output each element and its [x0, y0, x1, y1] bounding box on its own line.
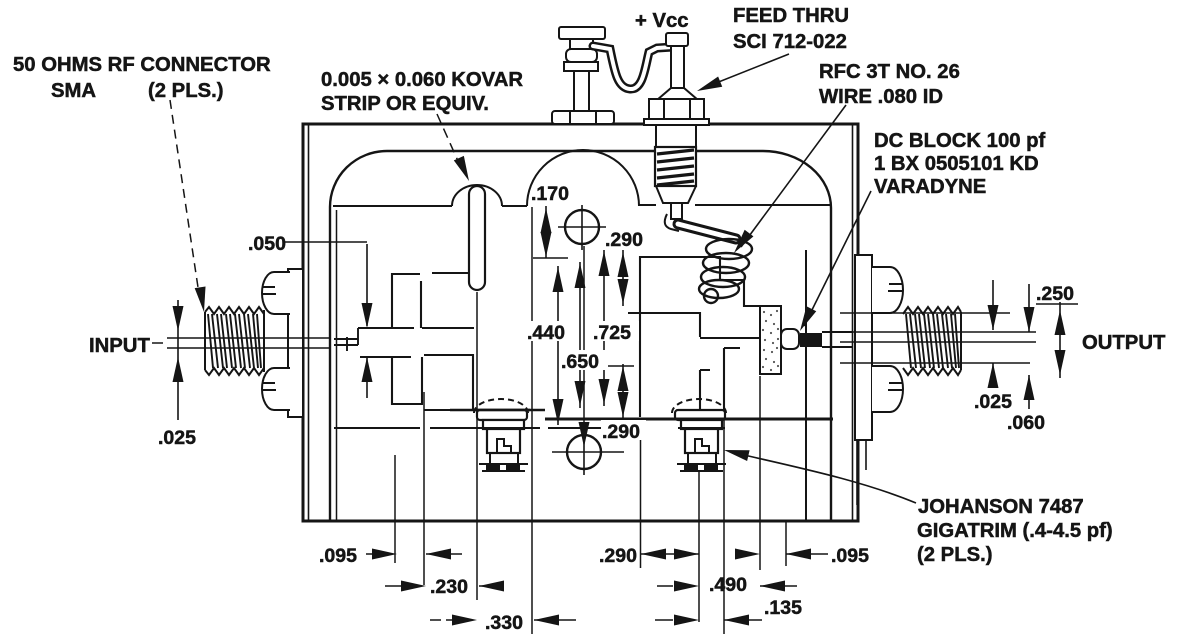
- dim .440: [557, 266, 559, 425]
- dim row3 .135: [655, 619, 762, 621]
- svg-text:(2 PLS.): (2 PLS.): [148, 80, 224, 102]
- svg-text:.330: .330: [485, 612, 523, 634]
- svg-text:50 OHMS RF CONNECTOR: 50 OHMS RF CONNECTOR: [13, 54, 271, 76]
- Vcc standoff post: [552, 27, 614, 124]
- cavity center dome boss: [527, 150, 639, 206]
- J2 center pin and reference lines: [840, 313, 1036, 363]
- substrate bottom edge left (dash-dot): [334, 427, 642, 429]
- svg-text:.060: .060: [1007, 412, 1045, 434]
- ext line dc block right: [785, 520, 787, 566]
- dim row2 .490: [657, 585, 797, 587]
- J2 upper mounting screw: [872, 267, 903, 313]
- svg-text:.025: .025: [158, 427, 196, 449]
- ext line right pattern channel: [723, 419, 725, 634]
- dim .290 upper: [622, 250, 624, 306]
- kovar strip K1: [469, 186, 485, 290]
- ext line trimmer C2 center: [698, 472, 700, 622]
- ext line kovar strip center: [476, 292, 478, 600]
- svg-text:.095: .095: [831, 545, 869, 567]
- svg-text:FEED THRU: FEED THRU: [733, 5, 849, 27]
- svg-text:.490: .490: [709, 574, 747, 596]
- svg-text:JOHANSON 7487: JOHANSON 7487: [918, 496, 1084, 518]
- dim row1 .095 right: [737, 553, 828, 555]
- SMA connector J2 (output) flange: [855, 255, 872, 440]
- substrate top edge: [333, 205, 830, 206]
- microstrip pattern right: bias pad: [640, 257, 760, 417]
- dim .060 output: [1028, 284, 1030, 409]
- dim value .250 underline: [1036, 303, 1078, 305]
- dim .725: [603, 250, 605, 406]
- svg-text:.290: .290: [605, 229, 643, 251]
- trimmer capacitor C2 (right Johanson Gigatrim): [672, 399, 726, 471]
- substrate left edge line: [336, 210, 338, 520]
- microstrip pattern right: output line steps: [628, 313, 760, 417]
- microstrip pattern left: lower coupled line: [360, 355, 478, 410]
- leader arrow to feed-thru: [706, 54, 789, 87]
- substrate right edge line: [805, 250, 807, 520]
- leader arrow to trimmer C2: [731, 452, 916, 503]
- SMA connector J1 (input) flange: [288, 269, 303, 417]
- dim .025 input: [177, 300, 179, 420]
- microstrip pattern left: upper coupled line: [358, 273, 474, 328]
- substrate bottom edge right: [545, 418, 833, 421]
- dim .290 lower mid: [622, 364, 624, 419]
- mounting line across trimmer C2 cap: [673, 418, 728, 421]
- svg-text:.290: .290: [599, 545, 637, 567]
- wire W1 from standoff to feed-thru: [593, 46, 673, 89]
- cavity wall outline: [330, 151, 831, 521]
- svg-text:.440: .440: [527, 322, 565, 344]
- ext line dc block left: [759, 376, 761, 570]
- DC block capacitor C3 body: [760, 306, 853, 374]
- RFC coil L1 wire elbow: [665, 214, 679, 231]
- tooling hole H2: [552, 429, 624, 475]
- J1 upper mounting screw: [262, 272, 290, 314]
- svg-text:.025: .025: [974, 391, 1012, 413]
- dim .170: [545, 206, 547, 258]
- svg-text:.170: .170: [531, 183, 569, 205]
- svg-text:.095: .095: [319, 545, 357, 567]
- svg-text:VARADYNE: VARADYNE: [874, 176, 986, 198]
- housing right wall inner line: [852, 124, 854, 521]
- leader arrow to SMA input: [170, 100, 199, 294]
- svg-text:INPUT: INPUT: [89, 335, 150, 357]
- microstrip pattern left: input line: [334, 328, 358, 351]
- housing outer wall: [303, 124, 858, 521]
- cavity boss arch over kovar strip: [452, 185, 502, 206]
- svg-text:GIGATRIM (.4-4.5 pf): GIGATRIM (.4-4.5 pf): [917, 520, 1113, 542]
- dim .650: [579, 262, 581, 408]
- svg-text:.650: .650: [561, 351, 599, 373]
- trimmer C1 mounting line: [450, 409, 545, 411]
- svg-text:.230: .230: [430, 576, 468, 598]
- trimmer capacitor C1 (left Johanson Gigatrim): [474, 399, 528, 471]
- ext line hole centers: [583, 246, 585, 431]
- ext line left pattern 2: [423, 392, 425, 585]
- svg-text:(2 PLS.): (2 PLS.): [917, 544, 993, 566]
- feed-thru terminal top: [644, 33, 709, 125]
- housing left wall inner line: [308, 124, 310, 521]
- tooling hole H1: [558, 205, 606, 250]
- svg-text:.250: .250: [1036, 283, 1074, 305]
- svg-text:0.005 × 0.060 KOVAR: 0.005 × 0.060 KOVAR: [321, 69, 523, 91]
- leader arrow to DC block: [804, 191, 871, 326]
- svg-text:RFC 3T NO. 26: RFC 3T NO. 26: [819, 61, 960, 83]
- svg-text:1 BX 0505101 KD: 1 BX 0505101 KD: [874, 153, 1039, 175]
- svg-text:.135: .135: [764, 597, 802, 619]
- dim row1 .290 right: [641, 553, 699, 555]
- svg-text:OUTPUT: OUTPUT: [1082, 332, 1166, 354]
- dim value .290 lower: [601, 420, 646, 440]
- ext line dome base: [531, 207, 533, 634]
- J2 lower mounting screw: [872, 366, 903, 412]
- svg-text:.725: .725: [593, 322, 631, 344]
- J1 center pin lines: [167, 338, 330, 348]
- svg-text:SCI 712-022: SCI 712-022: [733, 31, 847, 53]
- svg-text:.290: .290: [602, 421, 640, 443]
- J2 threaded barrel: [903, 307, 961, 375]
- RFC coil L1 turns: [699, 239, 752, 303]
- ext line left pattern: [394, 455, 396, 563]
- dim .250 output: [1059, 302, 1061, 378]
- ext line 290 short: [640, 419, 642, 568]
- dim row3 .330: [430, 619, 576, 621]
- dim value .725: [592, 321, 639, 341]
- leader arrow to RFC coil: [741, 105, 846, 247]
- arrow into tooling hole H2: [579, 422, 590, 447]
- svg-text:STRIP OR EQUIV.: STRIP OR EQUIV.: [321, 93, 489, 115]
- svg-text:.050: .050: [248, 233, 286, 255]
- dim value .440: [526, 321, 573, 341]
- dim .050 leader: [283, 242, 367, 398]
- svg-text:DC BLOCK 100 pf: DC BLOCK 100 pf: [874, 130, 1046, 152]
- dim row2 .230: [385, 585, 503, 587]
- dim row1 .095 left: [366, 553, 462, 555]
- J1 threaded barrel: [205, 307, 264, 375]
- dimension extension lines: [395, 207, 786, 634]
- leader arrow to kovar strip: [437, 114, 462, 170]
- mounting line across trimmer C1 cap: [475, 409, 530, 411]
- feed-thru capacitor body in wall: [655, 124, 696, 219]
- J1 lower mounting screw: [262, 368, 290, 410]
- dim value .650: [560, 350, 607, 370]
- svg-text:WIRE .080 ID: WIRE .080 ID: [819, 86, 943, 108]
- dim .025 output: [992, 280, 994, 386]
- svg-text:+ Vcc: + Vcc: [635, 10, 689, 32]
- svg-text:SMA: SMA: [51, 80, 96, 102]
